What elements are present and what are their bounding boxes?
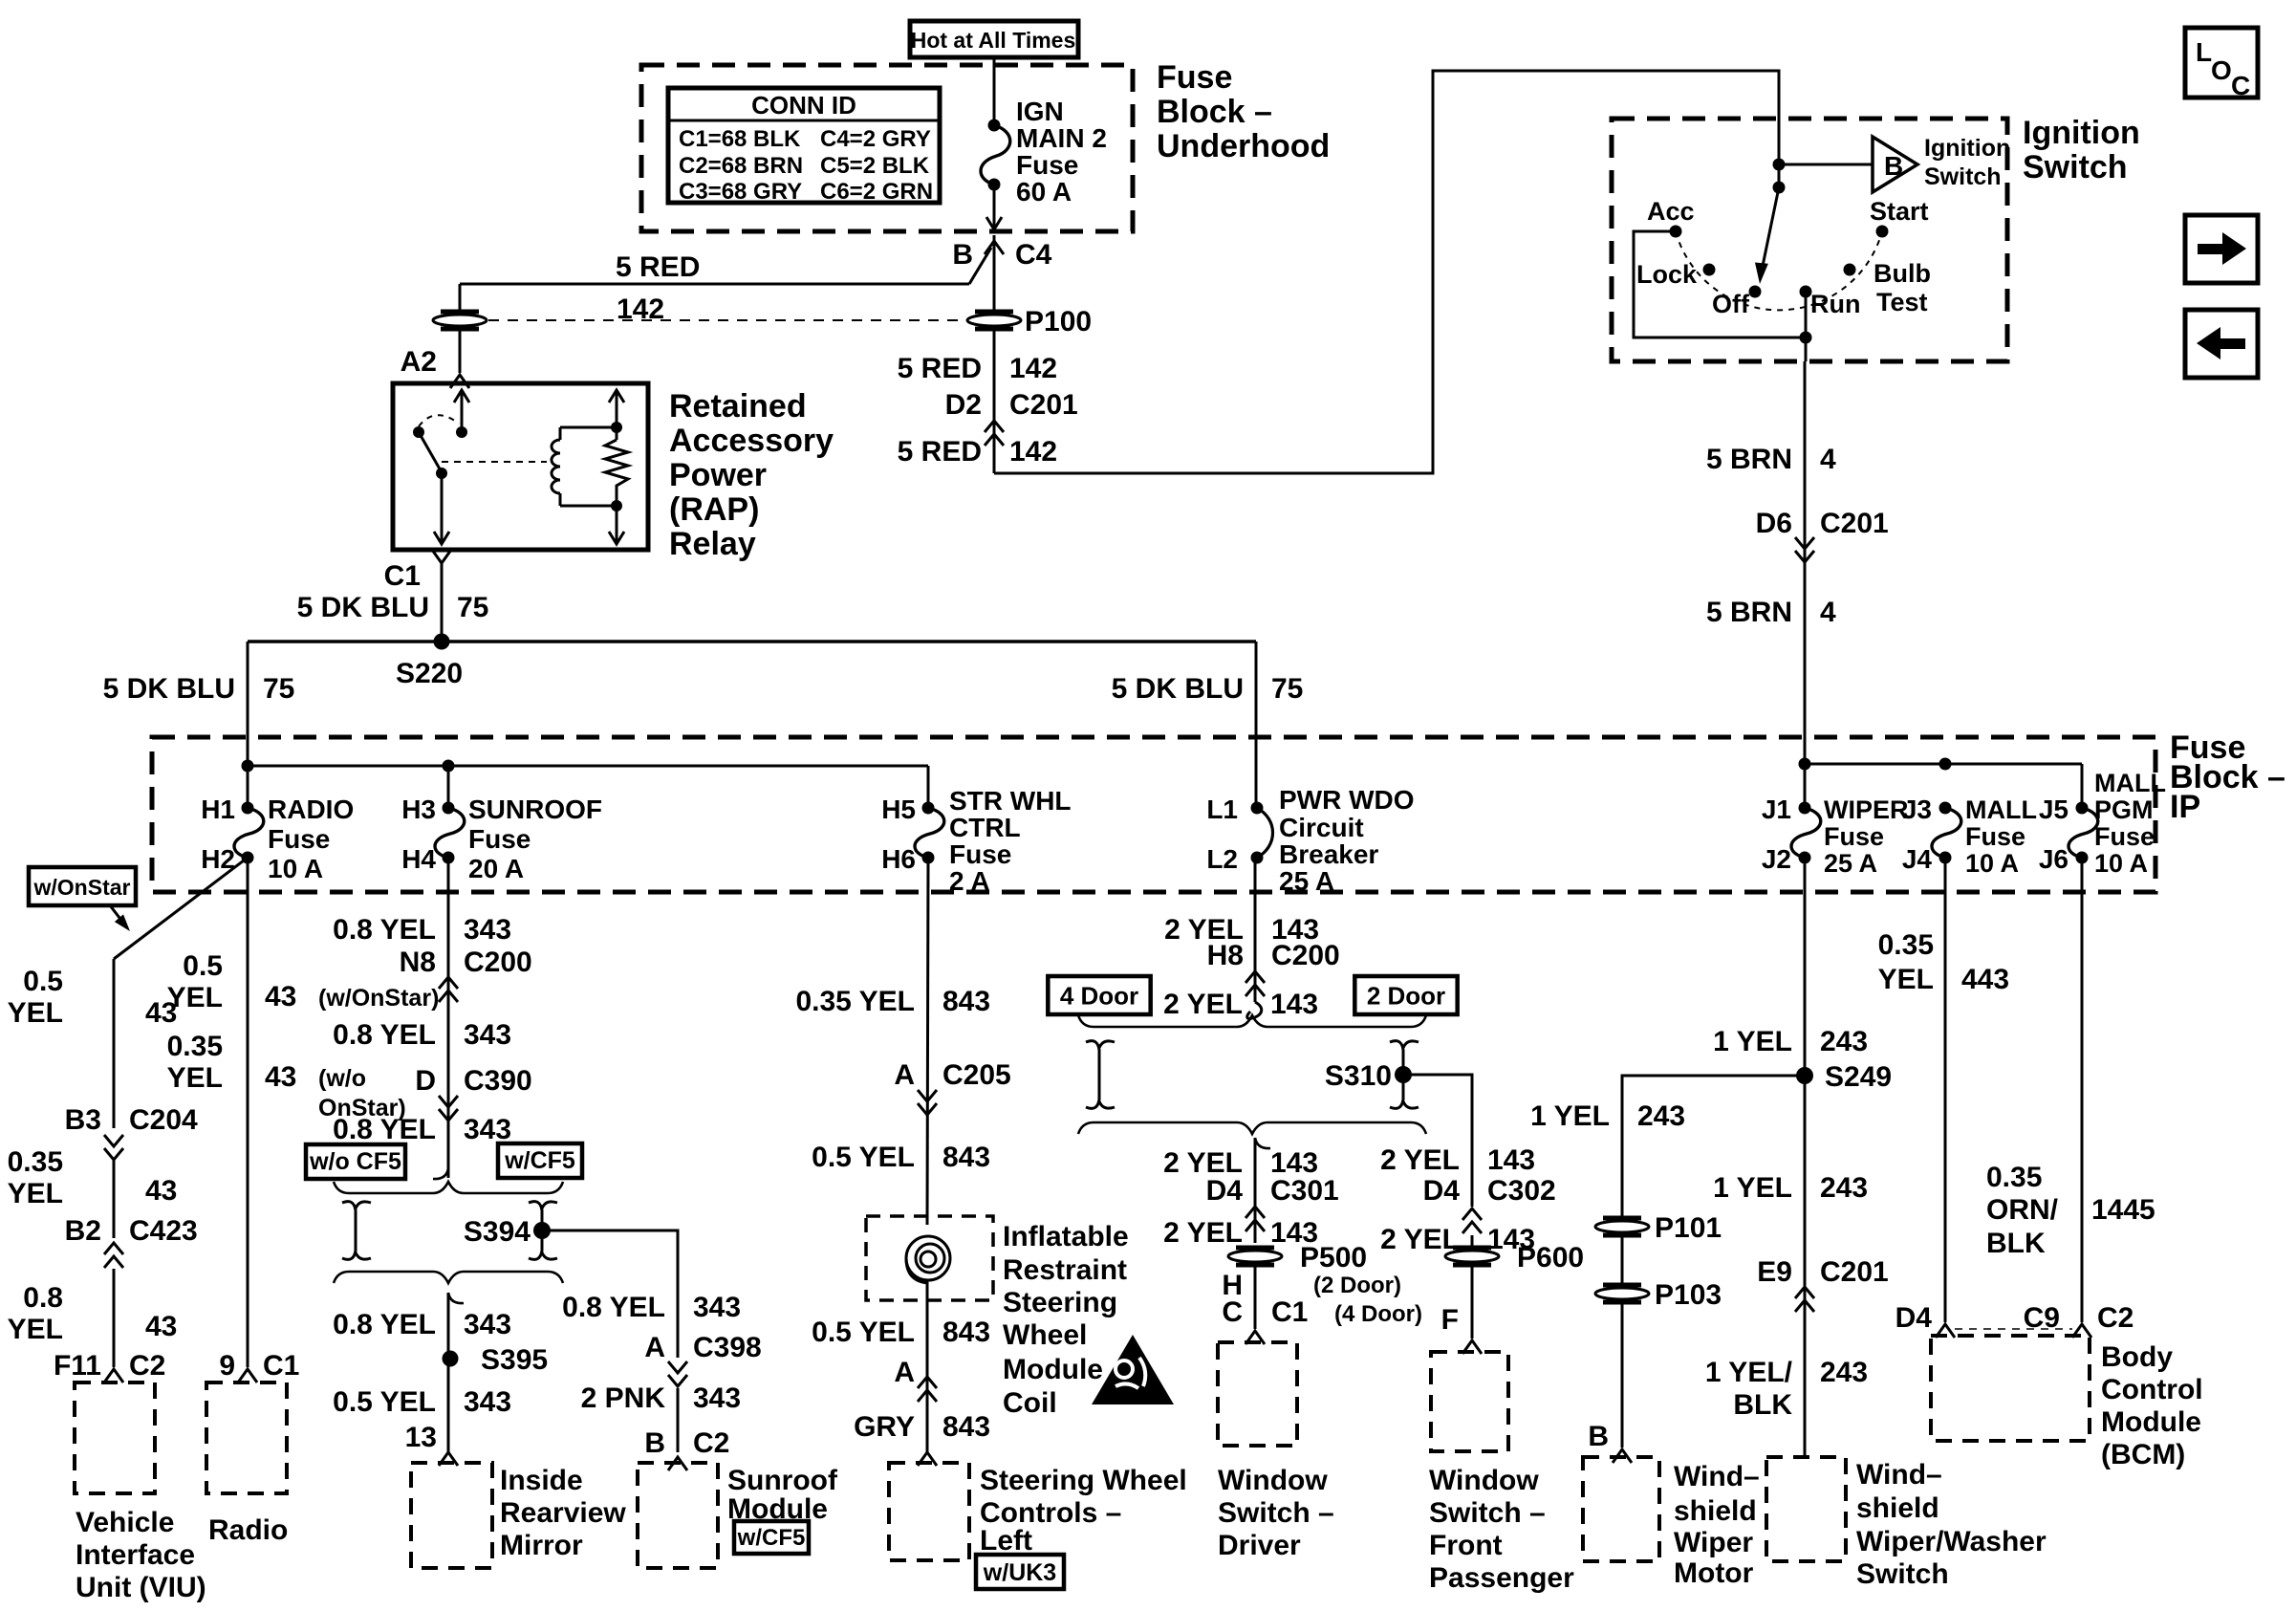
svg-text:P100: P100 <box>1025 306 1092 337</box>
svg-text:C: C <box>2231 71 2250 100</box>
svg-text:N8: N8 <box>400 947 436 978</box>
svg-text:0.35: 0.35 <box>1878 929 1934 961</box>
svg-text:E9: E9 <box>1757 1256 1792 1288</box>
svg-text:0.8 YEL: 0.8 YEL <box>333 1114 436 1145</box>
svg-text:5 BRN: 5 BRN <box>1706 444 1792 475</box>
svg-text:843: 843 <box>942 1317 990 1348</box>
svg-text:BLK: BLK <box>1733 1389 1792 1421</box>
svg-text:C201: C201 <box>1820 508 1889 539</box>
svg-text:C4=2 GRY: C4=2 GRY <box>820 126 931 152</box>
svg-text:5 RED: 5 RED <box>898 436 982 468</box>
svg-text:Window: Window <box>1429 1465 1539 1496</box>
svg-text:Power: Power <box>669 457 767 493</box>
svg-text:A: A <box>894 1059 915 1091</box>
svg-text:RADIO: RADIO <box>268 795 354 824</box>
svg-text:w/CF5: w/CF5 <box>737 1525 806 1551</box>
svg-text:J6: J6 <box>2039 844 2069 874</box>
svg-text:C204: C204 <box>129 1104 198 1136</box>
svg-text:Fuse: Fuse <box>1965 822 2025 851</box>
svg-text:Radio: Radio <box>208 1514 288 1546</box>
svg-text:YEL: YEL <box>8 997 63 1029</box>
svg-text:C201: C201 <box>1820 1256 1889 1288</box>
svg-text:142: 142 <box>1009 436 1057 468</box>
svg-text:Steering: Steering <box>1003 1287 1117 1318</box>
svg-text:5 BRN: 5 BRN <box>1706 597 1792 628</box>
svg-text:H8: H8 <box>1207 940 1244 971</box>
svg-text:B: B <box>952 239 973 271</box>
svg-text:Fuse: Fuse <box>949 839 1011 869</box>
svg-text:C: C <box>1222 1296 1243 1328</box>
svg-text:2 YEL: 2 YEL <box>1380 1224 1460 1255</box>
svg-text:H1: H1 <box>201 795 235 824</box>
svg-text:D4: D4 <box>1206 1175 1244 1207</box>
svg-text:243: 243 <box>1820 1026 1868 1057</box>
svg-text:75: 75 <box>1271 673 1303 705</box>
svg-text:B: B <box>1884 151 1903 181</box>
svg-text:YEL: YEL <box>8 1178 63 1209</box>
svg-text:142: 142 <box>1009 353 1057 384</box>
svg-text:0.8 YEL: 0.8 YEL <box>333 1309 436 1340</box>
svg-text:C390: C390 <box>464 1065 532 1097</box>
svg-text:C200: C200 <box>464 947 532 978</box>
svg-text:75: 75 <box>457 592 488 623</box>
svg-text:C4: C4 <box>1015 239 1052 271</box>
svg-text:BLK: BLK <box>1986 1228 2046 1259</box>
svg-text:1 YEL: 1 YEL <box>1530 1100 1610 1132</box>
svg-text:MAIN 2: MAIN 2 <box>1016 123 1107 153</box>
svg-text:43: 43 <box>145 1311 177 1342</box>
svg-text:Lock: Lock <box>1636 260 1698 289</box>
svg-text:Passenger: Passenger <box>1429 1562 1574 1594</box>
svg-text:w/CF5: w/CF5 <box>504 1147 575 1174</box>
svg-text:C423: C423 <box>129 1215 198 1247</box>
svg-text:(RAP): (RAP) <box>669 491 759 528</box>
svg-text:Vehicle: Vehicle <box>76 1507 174 1538</box>
svg-text:0.35: 0.35 <box>1986 1162 2042 1193</box>
svg-text:Switch: Switch <box>1856 1558 1949 1590</box>
svg-text:H4: H4 <box>401 844 436 874</box>
svg-text:C398: C398 <box>693 1332 762 1363</box>
svg-text:Wind–: Wind– <box>1856 1459 1942 1491</box>
svg-text:Ignition: Ignition <box>1924 135 2010 162</box>
svg-text:Motor: Motor <box>1674 1557 1754 1589</box>
svg-text:Fuse: Fuse <box>268 824 330 854</box>
svg-text:O: O <box>2211 55 2232 85</box>
svg-text:SUNROOF: SUNROOF <box>468 795 602 824</box>
svg-text:PGM: PGM <box>2094 795 2154 824</box>
svg-text:2 A: 2 A <box>949 866 990 896</box>
svg-text:Retained: Retained <box>669 388 807 425</box>
svg-text:2 Door: 2 Door <box>1367 981 1445 1010</box>
svg-text:0.8 YEL: 0.8 YEL <box>562 1292 665 1323</box>
svg-text:shield: shield <box>1856 1492 1939 1524</box>
svg-text:143: 143 <box>1487 1144 1535 1176</box>
svg-text:B3: B3 <box>65 1104 101 1136</box>
svg-text:A2: A2 <box>401 346 437 378</box>
svg-text:A: A <box>894 1357 915 1388</box>
svg-text:0.5 YEL: 0.5 YEL <box>812 1317 915 1348</box>
svg-text:0.35: 0.35 <box>8 1146 63 1178</box>
svg-text:S395: S395 <box>481 1344 548 1376</box>
svg-text:Switch –: Switch – <box>1218 1497 1334 1529</box>
svg-text:B2: B2 <box>65 1215 101 1247</box>
svg-text:843: 843 <box>942 1142 990 1173</box>
svg-text:343: 343 <box>693 1292 741 1323</box>
svg-text:1 YEL: 1 YEL <box>1713 1172 1792 1204</box>
svg-text:Coil: Coil <box>1003 1387 1057 1419</box>
svg-text:C205: C205 <box>942 1059 1011 1091</box>
svg-text:Inflatable: Inflatable <box>1003 1221 1129 1252</box>
svg-text:43: 43 <box>265 981 296 1012</box>
svg-text:25 A: 25 A <box>1824 849 1877 878</box>
svg-text:60 A: 60 A <box>1016 177 1072 207</box>
svg-text:243: 243 <box>1637 1100 1685 1132</box>
svg-text:Restraint: Restraint <box>1003 1254 1127 1286</box>
svg-text:D4: D4 <box>1423 1175 1461 1207</box>
svg-text:5 RED: 5 RED <box>616 251 700 283</box>
svg-text:Hot at All Times: Hot at All Times <box>911 28 1076 53</box>
svg-text:143: 143 <box>1270 989 1318 1020</box>
svg-text:GRY: GRY <box>854 1411 915 1443</box>
svg-text:Control: Control <box>2101 1374 2203 1405</box>
svg-text:Driver: Driver <box>1218 1530 1301 1561</box>
svg-text:Wheel: Wheel <box>1003 1319 1087 1351</box>
svg-text:Switch: Switch <box>1924 163 2002 190</box>
svg-text:Wind–: Wind– <box>1674 1461 1760 1492</box>
svg-text:Mirror: Mirror <box>500 1530 583 1561</box>
svg-text:w/OnStar: w/OnStar <box>33 875 131 900</box>
svg-text:0.8: 0.8 <box>23 1282 63 1314</box>
svg-text:Rearview: Rearview <box>500 1497 626 1529</box>
svg-text:4: 4 <box>1820 444 1836 475</box>
svg-text:Ignition: Ignition <box>2023 115 2140 151</box>
svg-text:H6: H6 <box>881 844 916 874</box>
svg-text:H3: H3 <box>401 795 436 824</box>
svg-text:YEL: YEL <box>167 982 223 1013</box>
svg-text:43: 43 <box>265 1061 296 1093</box>
svg-text:4: 4 <box>1820 597 1836 628</box>
svg-text:5 DK BLU: 5 DK BLU <box>297 592 429 623</box>
svg-text:C5=2 BLK: C5=2 BLK <box>820 153 930 179</box>
svg-text:C1: C1 <box>1271 1296 1308 1328</box>
svg-text:H5: H5 <box>881 795 916 824</box>
svg-text:Breaker: Breaker <box>1279 839 1378 869</box>
svg-text:(w/o: (w/o <box>318 1065 366 1092</box>
svg-text:C2=68 BRN: C2=68 BRN <box>679 153 803 179</box>
svg-text:J4: J4 <box>1902 844 1933 874</box>
svg-text:STR WHL: STR WHL <box>949 786 1072 816</box>
svg-text:(2 Door): (2 Door) <box>1313 1273 1401 1298</box>
svg-text:F11: F11 <box>54 1350 101 1382</box>
svg-text:Inside: Inside <box>500 1465 583 1496</box>
svg-text:Fuse: Fuse <box>1157 59 1232 96</box>
svg-text:43: 43 <box>145 1175 177 1207</box>
svg-text:B: B <box>644 1427 665 1459</box>
svg-text:J1: J1 <box>1762 795 1791 824</box>
svg-text:Circuit: Circuit <box>1279 813 1364 842</box>
svg-text:S220: S220 <box>396 658 463 689</box>
svg-text:0.5: 0.5 <box>23 966 63 997</box>
svg-text:P103: P103 <box>1655 1279 1722 1311</box>
svg-text:Test: Test <box>1876 288 1928 316</box>
svg-text:10 A: 10 A <box>1965 849 2019 878</box>
svg-text:S394: S394 <box>464 1216 531 1248</box>
svg-text:IGN: IGN <box>1016 97 1064 126</box>
svg-text:L1: L1 <box>1206 795 1238 824</box>
svg-text:343: 343 <box>464 1386 511 1418</box>
svg-text:YEL: YEL <box>1878 964 1934 995</box>
svg-text:5 DK BLU: 5 DK BLU <box>103 673 235 705</box>
svg-text:D2: D2 <box>945 389 982 421</box>
svg-text:C6=2 GRN: C6=2 GRN <box>820 179 933 205</box>
svg-text:2 YEL: 2 YEL <box>1163 1217 1243 1249</box>
svg-text:2 PNK: 2 PNK <box>581 1382 666 1414</box>
svg-text:343: 343 <box>693 1382 741 1414</box>
svg-text:10 A: 10 A <box>2094 849 2148 878</box>
svg-text:Fuse: Fuse <box>1824 822 1884 851</box>
svg-text:C3=68 GRY: C3=68 GRY <box>679 179 802 205</box>
svg-text:C302: C302 <box>1487 1175 1556 1207</box>
svg-text:YEL: YEL <box>8 1314 63 1345</box>
svg-text:WIPER: WIPER <box>1824 795 1909 824</box>
svg-text:C1: C1 <box>263 1350 299 1382</box>
svg-text:5 DK BLU: 5 DK BLU <box>1112 673 1244 705</box>
svg-text:MALL: MALL <box>1965 795 2037 824</box>
svg-text:343: 343 <box>464 1309 511 1340</box>
svg-text:0.8 YEL: 0.8 YEL <box>333 1019 436 1051</box>
svg-text:20 A: 20 A <box>468 854 524 883</box>
svg-text:Module: Module <box>2101 1406 2201 1438</box>
svg-text:0.35 YEL: 0.35 YEL <box>795 986 915 1017</box>
svg-text:Sunroof: Sunroof <box>727 1465 838 1496</box>
svg-text:P500: P500 <box>1300 1242 1367 1274</box>
svg-text:1445: 1445 <box>2091 1194 2155 1226</box>
svg-text:Wiper/Washer: Wiper/Washer <box>1856 1526 2047 1557</box>
svg-text:1 YEL/: 1 YEL/ <box>1705 1357 1793 1388</box>
svg-text:(BCM): (BCM) <box>2101 1439 2185 1470</box>
svg-text:D: D <box>415 1065 436 1097</box>
svg-text:CONN ID: CONN ID <box>751 91 856 120</box>
svg-text:Start: Start <box>1870 197 1929 226</box>
svg-text:Bulb: Bulb <box>1874 259 1931 288</box>
svg-text:343: 343 <box>464 914 511 946</box>
svg-text:2 YEL: 2 YEL <box>1163 989 1243 1020</box>
svg-text:Fuse: Fuse <box>1016 150 1078 180</box>
svg-text:343: 343 <box>464 1019 511 1051</box>
svg-text:C2: C2 <box>693 1427 729 1459</box>
svg-text:Module: Module <box>1003 1354 1103 1385</box>
svg-text:243: 243 <box>1820 1172 1868 1204</box>
svg-text:(4 Door): (4 Door) <box>1334 1301 1422 1327</box>
svg-text:shield: shield <box>1674 1495 1757 1527</box>
svg-text:Left: Left <box>980 1525 1032 1557</box>
svg-text:Unit (VIU): Unit (VIU) <box>76 1572 206 1603</box>
svg-text:Off: Off <box>1712 290 1750 318</box>
svg-text:A: A <box>644 1332 665 1363</box>
svg-text:Body: Body <box>2101 1341 2173 1373</box>
svg-text:Wiper: Wiper <box>1674 1527 1753 1558</box>
svg-text:CTRL: CTRL <box>949 813 1021 842</box>
svg-text:Window: Window <box>1218 1465 1328 1496</box>
svg-text:443: 443 <box>1961 964 2009 995</box>
svg-text:Fuse: Fuse <box>2094 822 2155 851</box>
svg-text:C2: C2 <box>2097 1302 2134 1334</box>
svg-text:C301: C301 <box>1270 1175 1339 1207</box>
svg-text:C201: C201 <box>1009 389 1078 421</box>
svg-text:4 Door: 4 Door <box>1060 981 1138 1010</box>
svg-text:MALL: MALL <box>2094 769 2166 797</box>
svg-text:w/o CF5: w/o CF5 <box>309 1148 401 1175</box>
svg-text:IP: IP <box>2170 789 2200 825</box>
svg-text:0.5 YEL: 0.5 YEL <box>333 1386 436 1418</box>
svg-text:13: 13 <box>405 1422 437 1453</box>
svg-text:Accessory: Accessory <box>669 423 834 459</box>
svg-text:Acc: Acc <box>1647 197 1695 226</box>
svg-text:10 A: 10 A <box>268 854 323 883</box>
svg-text:Run: Run <box>1810 290 1860 318</box>
svg-text:5 RED: 5 RED <box>898 353 982 384</box>
svg-text:1 YEL: 1 YEL <box>1713 1026 1792 1057</box>
svg-text:843: 843 <box>942 986 990 1017</box>
svg-text:Steering Wheel: Steering Wheel <box>980 1465 1187 1496</box>
svg-text:P101: P101 <box>1655 1212 1722 1244</box>
svg-text:C200: C200 <box>1271 940 1340 971</box>
svg-text:B: B <box>1588 1421 1609 1452</box>
svg-text:YEL: YEL <box>167 1062 223 1094</box>
svg-text:ORN/: ORN/ <box>1986 1194 2059 1226</box>
svg-text:P600: P600 <box>1517 1242 1584 1274</box>
svg-text:L: L <box>2196 37 2212 67</box>
svg-text:F: F <box>1441 1304 1459 1336</box>
svg-text:75: 75 <box>263 673 294 705</box>
svg-text:D6: D6 <box>1756 508 1792 539</box>
svg-text:Fuse: Fuse <box>468 824 531 854</box>
svg-text:0.8 YEL: 0.8 YEL <box>333 914 436 946</box>
svg-text:S310: S310 <box>1325 1060 1392 1092</box>
svg-text:C1=68 BLK: C1=68 BLK <box>679 126 801 152</box>
svg-text:9: 9 <box>219 1350 235 1382</box>
svg-text:2 YEL: 2 YEL <box>1380 1144 1460 1176</box>
svg-text:L2: L2 <box>1206 844 1238 874</box>
svg-text:Front: Front <box>1429 1530 1503 1561</box>
svg-text:0.35: 0.35 <box>167 1031 223 1062</box>
svg-text:C2: C2 <box>129 1350 165 1382</box>
svg-text:0.5 YEL: 0.5 YEL <box>812 1142 915 1173</box>
svg-text:343: 343 <box>464 1114 511 1145</box>
svg-text:S249: S249 <box>1825 1061 1892 1093</box>
svg-text:J2: J2 <box>1762 844 1791 874</box>
svg-text:(w/OnStar): (w/OnStar) <box>318 985 439 1012</box>
svg-text:Switch: Switch <box>2023 149 2128 185</box>
svg-text:J5: J5 <box>2039 795 2069 824</box>
svg-text:PWR WDO: PWR WDO <box>1279 785 1415 815</box>
svg-text:0.5: 0.5 <box>183 950 223 982</box>
svg-text:Block –: Block – <box>1157 94 1272 130</box>
svg-text:C1: C1 <box>384 560 421 592</box>
svg-text:25 A: 25 A <box>1279 866 1334 896</box>
svg-text:J3: J3 <box>1902 795 1932 824</box>
svg-text:843: 843 <box>942 1411 990 1443</box>
svg-text:w/UK3: w/UK3 <box>983 1559 1056 1586</box>
svg-text:Relay: Relay <box>669 526 756 562</box>
svg-text:D4: D4 <box>1895 1302 1933 1334</box>
svg-text:Underhood: Underhood <box>1157 128 1330 164</box>
svg-text:Switch –: Switch – <box>1429 1497 1546 1529</box>
svg-text:243: 243 <box>1820 1357 1868 1388</box>
svg-text:Interface: Interface <box>76 1539 195 1571</box>
